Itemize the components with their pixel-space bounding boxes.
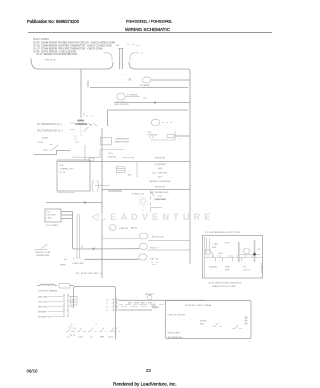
svg-text:BLK + WHT (BL): BLK + WHT (BL) [153,173,168,175]
svg-text:I.T.L DRETER WINKS-I CIRCT: I.T.L DRETER WINKS-I CIRCT TTP/TB [205,232,241,234]
svg-text:MTR: MTR [212,247,217,249]
svg-text:Y P E: Y P E [224,243,230,245]
svg-text:BRN/WHT: BRN/WHT [38,312,48,314]
svg-text:(7 AM /)M: (7 AM /)M [119,227,128,230]
svg-text:M W M(-): M W M(-) [108,157,117,159]
svg-text:3 CON RED: 3 CON RED [127,95,138,97]
svg-text:x: x [179,139,180,141]
svg-text:A TITE WFI #LACK # STA/BB: A TITE WFI #LACK # STA/BB [185,304,212,307]
svg-text:SY CF: COMM ERROR OPEN FRZ T: SY CF: COMM ERROR OPEN FRZ THERMISTOR - … [33,49,103,51]
svg-text:L BLU: L BLU [108,337,114,339]
svg-text:RELAY: RELAY [42,137,49,140]
svg-text:COMPACT FLO: COMPACT FLO [60,168,75,171]
svg-text:RESISTOR: RESISTOR [155,187,166,189]
svg-text:(CBL)(S): (CBL)(S) [209,267,217,269]
svg-text:06/10: 06/10 [27,369,39,374]
svg-text:START DEVICE: START DEVICE [115,141,130,144]
svg-text:SY CE: COMM ERROR SHORTED TH: SY CE: COMM ERROR SHORTED THERMISTOR - C… [33,46,112,48]
svg-text:CRC TRD: CRC TRD [47,215,57,217]
svg-text:SB BLK: SB BLK [200,321,208,323]
svg-text:LEADVENTURE: LEADVENTURE [101,212,215,222]
svg-text:FAULT CODES: FAULT CODES [33,38,49,41]
svg-text:* NOTE: THE N IN THE CONN WTR: * NOTE: THE N IN THE CONN WTR P [207,283,242,285]
svg-text:KBPS GURW: KBPS GURW [168,333,180,335]
svg-text:WHT/BLK OR WHT/BLU: WHT/BLK OR WHT/BLU [149,181,172,183]
svg-text:L-CON: L-CON [37,142,44,144]
svg-text:RT THERMISTOR ▯))--▯: RT THERMISTOR ▯))--▯ [37,123,62,126]
svg-text:RESISTOR: RESISTOR [155,158,166,160]
svg-text:OVER TEMP: OVER TEMP [154,199,166,201]
svg-text:L BU: L BU [78,337,83,339]
svg-text:BLK + GRN + WHT + ORG + T: BLK + GRN + WHT + ORG + T [128,303,156,305]
svg-text:SY EF: CNTRL ERROR - CHECK BO: SY EF: CNTRL ERROR - CHECK BOARD [33,50,77,53]
svg-text:L WB P (M)S: L WB P (M)S [72,263,84,265]
svg-text:Publication No: 5995573200: Publication No: 5995573200 [27,19,80,24]
svg-text:| DEFROST HEATER |: | DEFROST HEATER | [38,290,59,293]
svg-text:A (*): A (*) [109,152,113,155]
svg-text:(PTC START): (PTC START) [46,224,59,227]
svg-text:4 1 10: 4 1 10 [60,172,66,174]
svg-text:Tww: Tww [158,196,163,198]
svg-text:L BLK: L BLK [47,218,53,220]
svg-text:O F/C: SEALED SYSTM RESTRICTI: O F/C: SEALED SYSTM RESTRICTION [36,53,78,56]
svg-text:WT GRN/BLK WHT: WT GRN/BLK WHT [151,192,169,194]
svg-text:22: 22 [146,368,151,373]
svg-text:TAL WATER ALL: TAL WATER ALL [168,336,184,339]
svg-text:SY EF: COMM ERROR FROZEN EVA: SY EF: COMM ERROR FROZEN EVAP FAN CIRCUI… [33,42,115,45]
svg-text:1 L B: 1 L B [149,137,154,139]
svg-text:DEFR: DEFR [60,265,66,267]
svg-text:DEFROST / CAP: DEFROST / CAP [35,251,51,254]
svg-text:* SEE NOTE: * SEE NOTE [44,60,56,62]
svg-text:L BL LU: L BL LU [243,270,251,272]
svg-text:B BL BI: B BL BI [150,258,158,260]
svg-text:WHEN DOOR IS CLOSED: WHEN DOOR IS CLOSED [212,286,236,288]
svg-text:GRN/BLK: GRN/BLK [145,294,154,296]
svg-text:RED/ORG: RED/ORG [38,307,48,309]
svg-text:ORG / BLK: ORG / BLK [38,302,49,304]
svg-text:(BLK OR WHT): (BLK OR WHT) [115,104,129,106]
svg-text:W: W [258,249,260,251]
svg-text:BLU/WHT BLK: BLU/WHT BLK [38,317,52,319]
svg-text:WTR: WTR [154,308,159,310]
svg-text:AM (M: AM (M [131,227,137,230]
svg-text:COMPRESSOR: COMPRESSOR [115,139,130,141]
svg-text:FRZ THERMISTOR ▯)--▯: FRZ THERMISTOR ▯)--▯ [37,130,63,133]
svg-text:LIGHT TO GRN WT: LIGHT TO GRN WT [168,314,187,316]
svg-text:Rendered by LeadVenture, Inc.: Rendered by LeadVenture, Inc. [113,382,177,387]
svg-text:GRY: GRY [158,177,163,179]
svg-text:PT AND CON: PT AND CON [132,193,145,196]
svg-text:L CHED W: L CHED W [260,263,262,273]
svg-text:NLB: NLB [219,253,224,255]
svg-text:CON A AND: CON A AND [139,84,150,87]
svg-text:BLK BT (,)BT: BLK BT (,)BT [152,237,165,239]
svg-text:J-NO: J-NO [43,150,48,152]
svg-text:LED: LED [60,165,64,167]
svg-text:M? + ATTN CNTRL WHT + C: M? + ATTN CNTRL WHT + C [76,272,103,275]
svg-text:FRZ LIG *: FRZ LIG * [150,247,159,249]
svg-text:r 1 r: r 1 r [70,324,74,326]
svg-text:FGHS2332L / FGHS2342L: FGHS2332L / FGHS2342L [126,19,173,24]
svg-text:CBM: CBM [225,267,230,269]
svg-text:⌐ CAU: ⌐ CAU [212,243,219,246]
svg-text:B(Y): B(Y) [128,175,132,177]
svg-text:MTR: MTR [225,270,230,272]
svg-text:WIRING SCHEMATIC: WIRING SCHEMATIC [125,27,171,32]
svg-text:BRN: BRN [100,337,105,339]
svg-text:TAN / BRN: TAN / BRN [38,296,48,299]
svg-text:CONTROL: CONTROL [75,123,88,126]
svg-text:PTC: PTC [47,212,52,214]
svg-text:THERMOSTAT: THERMOSTAT [36,254,50,257]
svg-text:GRN: GRN [158,168,163,170]
svg-text:LT GRN/WHT: LT GRN/WHT [154,164,167,166]
